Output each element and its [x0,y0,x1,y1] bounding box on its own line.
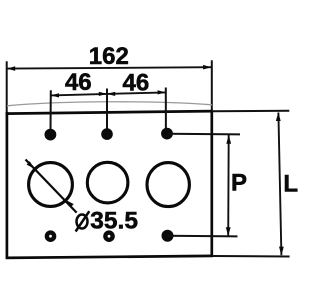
phi symbol [77,215,88,229]
dimension line 46 left [51,94,107,96]
dimension line P [227,135,230,236]
diameter leader line through circle 1 [26,160,77,213]
top edge extension to L dim [212,110,289,112]
arrow 162 left [7,66,15,71]
arrow L bottom [279,247,284,256]
extension line top hole row to P dim [168,133,241,136]
small hole bottom-left (ring) [45,230,57,242]
arrow 46R-left [107,92,115,96]
small hole bottom-middle (ring) [103,230,115,242]
arrow 46L-right [99,92,107,96]
svg-text:46: 46 [123,70,150,97]
diameter arrow lower-right [66,200,74,207]
plate rim line (faint) [7,102,212,106]
mounting hole top-left (solid) [45,129,57,141]
arrow 162 right [203,65,211,70]
svg-text:P: P [231,170,247,197]
mounting hole top-middle (solid) [101,128,113,140]
big hole circle 3 [147,163,189,207]
svg-text:35.5: 35.5 [90,208,138,235]
arrow P top [226,135,231,144]
svg-text:46: 46 [65,69,92,96]
dimension line L [278,113,281,256]
arrow 46L-left [51,93,59,97]
svg-text:L: L [283,170,298,197]
extension line hole 2 [106,89,108,132]
extension line right (162 dim) [211,60,213,112]
arrow 46R-right [158,90,166,94]
arrow P bottom [226,227,231,236]
big hole circle 2 [87,162,128,203]
bottom edge extension to L dim [212,255,290,258]
plate top edge [6,111,213,114]
extension line bottom hole row to P dim [168,235,238,238]
svg-text:162: 162 [89,43,129,70]
arrow L top [276,112,281,121]
plate bottom edge [6,256,213,258]
extension line left (162 dim) [6,61,8,113]
diameter arrow upper-left [27,161,35,168]
plate right edge [210,111,213,257]
small hole bottom-right (solid) [162,230,174,242]
extension line hole 3 [165,88,167,132]
extension line hole 1 [50,90,52,132]
plate left edge [6,112,9,258]
mounting hole top-right (solid) [161,128,173,140]
dimension line 162 [7,67,211,68]
big hole circle 1 [29,163,73,207]
dimension line 46 right [107,92,166,94]
